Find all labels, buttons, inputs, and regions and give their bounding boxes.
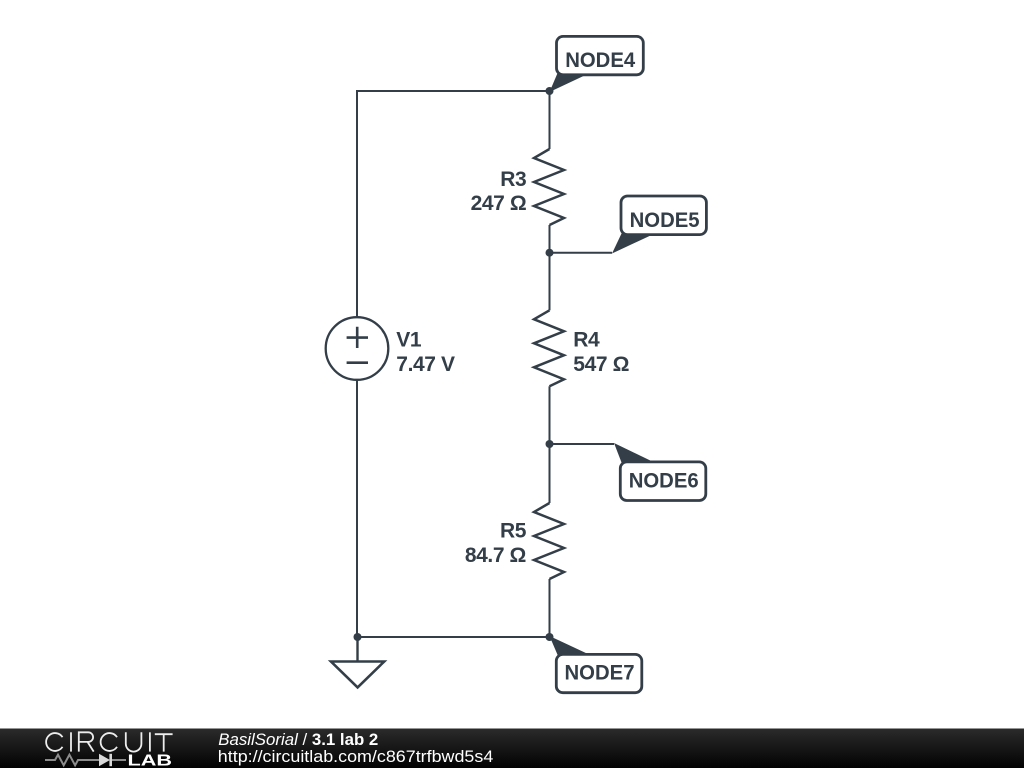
svg-text:V1: V1 (396, 329, 422, 352)
logo schematic: wire to LAB (112, 759, 126, 761)
resistor R4 (534, 310, 564, 386)
junction dot NODE5 (546, 249, 554, 257)
node label NODE4 (550, 36, 644, 92)
wire: top horizontal from left rail to NODE4 (357, 90, 550, 92)
resistor R5 (534, 503, 564, 579)
svg-text:LAB: LAB (128, 752, 173, 768)
junction dot NODE4 (546, 87, 554, 95)
svg-text:R4: R4 (573, 329, 600, 352)
svg-text:547 Ω: 547 Ω (573, 353, 629, 376)
svg-text:7.47 V: 7.47 V (396, 353, 455, 376)
ground (331, 637, 384, 687)
svg-text:NODE5: NODE5 (630, 209, 700, 232)
logo wordmark CIRCUIT (thin stroked letters) (46, 732, 172, 751)
wire: R5 bottom to NODE7 junction (549, 579, 551, 637)
voltage source V1 (326, 317, 389, 380)
wire: R4 bottom to NODE6 junction (549, 386, 551, 444)
svg-text:247 Ω: 247 Ω (471, 192, 527, 215)
node label NODE6 (614, 443, 706, 501)
svg-text:R3: R3 (500, 168, 526, 191)
node label NODE5 (612, 196, 706, 254)
logo schematic: wire + resistor (45, 755, 99, 766)
svg-text:NODE4: NODE4 (565, 49, 635, 72)
node label NODE7 (550, 636, 642, 693)
wire: NODE5 to R4 top (549, 253, 551, 311)
wire: NODE4 to R3 top (549, 91, 551, 149)
resistor R3 (534, 149, 564, 225)
junction dot bottom-left (354, 633, 362, 641)
svg-text:R5: R5 (500, 520, 527, 543)
junction dot NODE7 (546, 633, 554, 641)
svg-text:http://circuitlab.com/c867trfb: http://circuitlab.com/c867trfbwd5s4 (218, 748, 494, 766)
svg-text:84.7 Ω: 84.7 Ω (465, 544, 526, 567)
wire: R3 bottom to NODE5 junction (549, 225, 551, 253)
wire: NODE5 stub (550, 252, 613, 254)
wire: NODE6 stub (550, 443, 615, 445)
svg-text:BasilSorial / 3.1 lab 2: BasilSorial / 3.1 lab 2 (218, 731, 378, 749)
logo schematic: diode (99, 754, 110, 766)
wire: bottom horizontal (357, 636, 550, 638)
svg-text:NODE6: NODE6 (629, 470, 699, 493)
wire: NODE6 to R5 top (549, 444, 551, 503)
svg-text:NODE7: NODE7 (565, 662, 635, 685)
junction dot NODE6 (546, 440, 554, 448)
wire: left rail vertical (356, 90, 358, 637)
